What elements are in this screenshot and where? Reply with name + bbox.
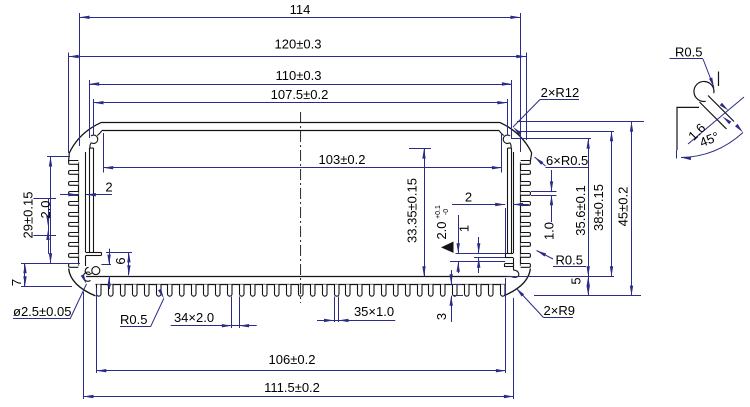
dim 2 left wall (60, 193, 112, 196)
svg-text:110±0.3: 110±0.3 (276, 68, 322, 83)
dim 1.0 text (542, 222, 557, 240)
left side fins 6xR0.5 (69, 161, 79, 268)
detail body corner (677, 107, 699, 150)
vertical centerline (300, 112, 302, 303)
dim 45±0.2 (517, 122, 644, 296)
dim 35x1.0 text (354, 304, 394, 319)
datum triangle (441, 242, 454, 253)
detail dim 1.6 text (685, 120, 708, 143)
dim 5 text (569, 277, 584, 284)
right wall inner below tabs (513, 258, 515, 270)
detail slot 45deg (700, 96, 735, 130)
dim 2 left wall text (105, 180, 112, 195)
svg-text:3: 3 (434, 313, 449, 320)
bottom web line (96, 284, 506, 286)
svg-text:114: 114 (290, 2, 311, 17)
dim 110±0.3 text (276, 68, 322, 83)
svg-text:35×1.0: 35×1.0 (354, 304, 394, 319)
svg-text:7: 7 (9, 279, 24, 286)
dim 1 (474, 237, 505, 273)
detail ext line (676, 150, 678, 159)
dim 45±0.2 text (616, 187, 631, 227)
left outer edge below arc (68, 153, 71, 161)
svg-text:120±0.3: 120±0.3 (275, 37, 322, 52)
svg-text:R0.5: R0.5 (556, 253, 583, 268)
svg-text:2: 2 (105, 180, 112, 195)
dim 6 text (113, 257, 128, 264)
svg-text:106±0.2: 106±0.2 (269, 352, 316, 367)
label 6xR0.5 text (546, 153, 588, 168)
svg-text:2.0: 2.0 (434, 221, 449, 239)
svg-text:33.35±0.15: 33.35±0.15 (405, 178, 420, 243)
bottom-left corner arc R9 (69, 269, 96, 296)
svg-text:R0.5: R0.5 (120, 312, 147, 327)
right outer edge below arc (530, 153, 531, 161)
svg-text:+0.1: +0.1 (435, 205, 442, 219)
detail label R0.5 text (675, 45, 702, 60)
dim 107.5±0.2 (94, 99, 508, 135)
detail 45deg text (697, 129, 721, 150)
leader 2xR12 (513, 100, 579, 136)
detail stub line (718, 72, 720, 87)
profile top-right corner arc R12 (500, 122, 532, 153)
svg-text:ø2.5±0.05: ø2.5±0.05 (13, 304, 71, 319)
dim 114 text (290, 2, 311, 17)
dim 2.0 left fins (33, 199, 56, 255)
dim 3 text (434, 313, 449, 320)
svg-text:R0.5: R0.5 (675, 45, 702, 60)
svg-text:2×R9: 2×R9 (544, 303, 575, 318)
dim 6 (101, 249, 132, 289)
dim 7 text (9, 279, 24, 286)
dim 106±0.2 (96, 278, 506, 373)
left pcb tab (86, 252, 102, 255)
svg-text:111.5±0.2: 111.5±0.2 (264, 380, 320, 395)
label 2xR9 text (544, 303, 575, 318)
dim 35.6±0.1 text (573, 185, 588, 236)
dim 111.5±0.2 (83, 292, 514, 399)
dim 1.0 (531, 170, 557, 222)
right screw channel walls (508, 148, 512, 253)
right pcb tab upper (505, 253, 513, 257)
svg-text:6×R0.5: 6×R0.5 (546, 153, 588, 168)
dim 2.0 text (38, 200, 53, 218)
label 2xR12 text (541, 85, 580, 100)
cavity floor line (86, 276, 511, 278)
leader R0.5 right (537, 251, 587, 267)
dim 103±0.2 (103, 133, 502, 173)
bottom fins 35x1.0 (97, 285, 506, 297)
dim 1 text (457, 225, 472, 232)
right pcb tab lower (505, 264, 514, 267)
left wall inner face (85, 152, 87, 252)
dim 110±0.3 (89, 80, 512, 138)
right side fins (521, 161, 531, 268)
svg-text:38±0.15: 38±0.15 (591, 184, 606, 231)
right bottom screw curl (511, 270, 519, 278)
svg-text:-0: -0 (443, 209, 450, 215)
leader o2.5±0.05 (13, 274, 87, 319)
left wall outer face (78, 162, 80, 266)
svg-text:2.0: 2.0 (38, 200, 53, 218)
svg-text:2×R12: 2×R12 (541, 85, 580, 100)
dim 111.5±0.2 text (264, 380, 320, 395)
right wall outer face (520, 162, 522, 266)
label R0.5 bottom-left text (120, 312, 147, 327)
dim 2 right wall (452, 203, 529, 254)
cavity top line (102, 130, 499, 132)
dim 29±0.15 text (21, 192, 36, 239)
svg-text:45±0.2: 45±0.2 (616, 187, 631, 227)
dim 106±0.2 text (269, 352, 316, 367)
svg-text:1: 1 (457, 225, 472, 232)
detail ball tip (694, 81, 714, 101)
dim 2 right wall text (465, 190, 472, 205)
dim 34x2.0 text (174, 310, 214, 325)
profile top edge (102, 122, 500, 124)
dim 120±0.3 text (275, 37, 322, 52)
dim 38±0.15 (507, 131, 614, 276)
dim 38±0.15 text (591, 184, 606, 231)
leader R0.5 bottom-left (120, 289, 164, 327)
leader 6xR0.5 (535, 157, 590, 168)
right wall inner face (513, 152, 515, 253)
dim 120±0.3 (69, 53, 527, 154)
left wall inner below tab (85, 255, 87, 266)
dim 107.5±0.2 text (271, 87, 329, 102)
svg-text:1.0: 1.0 (542, 222, 557, 240)
detail leader R0.5 (670, 59, 715, 88)
svg-text:6: 6 (113, 257, 128, 264)
dim 114 (80, 13, 521, 152)
detail arc 45deg (681, 124, 743, 160)
svg-text:107.5±0.2: 107.5±0.2 (271, 87, 329, 102)
dim 33.35±0.15 (409, 149, 431, 277)
dim 2.0 tol text (434, 205, 450, 240)
leader 2xR9 (516, 288, 573, 318)
left screw boss hook (90, 131, 102, 149)
dim 35x1.0 (317, 297, 395, 323)
svg-text:29±0.15: 29±0.15 (21, 192, 36, 239)
detail dim 1.6 line (688, 97, 744, 144)
left lower curl (92, 267, 100, 275)
dim 35.6±0.1 (511, 139, 591, 277)
dim 5 (587, 276, 590, 295)
left bottom screw curl (85, 267, 91, 274)
left corner screw hole o2.5 (83, 272, 90, 281)
dim 29±0.15 (21, 157, 80, 264)
svg-text:34×2.0: 34×2.0 (174, 310, 214, 325)
svg-text:103±0.2: 103±0.2 (319, 152, 366, 167)
dim 103±0.2 text (319, 152, 366, 167)
svg-text:5: 5 (569, 277, 584, 284)
label R0.5 right text (556, 253, 583, 268)
svg-text:2: 2 (465, 190, 472, 205)
dim 33.35±0.15 text (405, 178, 420, 243)
bottom-right corner arc R9 (504, 269, 531, 296)
left screw channel walls (90, 148, 94, 252)
svg-text:35.6±0.1: 35.6±0.1 (573, 185, 588, 236)
label o2.5±0.05 text (13, 304, 71, 319)
right screw boss hook (499, 131, 511, 149)
dim 3 (450, 270, 464, 322)
dim 2.0+0.1/-0 (450, 215, 505, 273)
dim 7 (21, 263, 72, 286)
dim 34x2.0 (171, 297, 257, 329)
profile top-left corner arc R12 (69, 122, 101, 153)
